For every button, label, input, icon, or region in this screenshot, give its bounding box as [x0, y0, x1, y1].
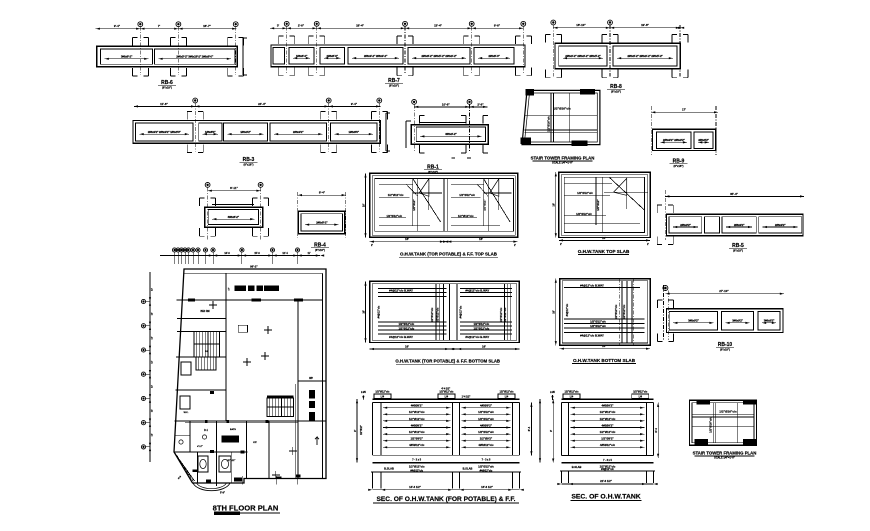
- section of O.H.W. tank (for potable) & F.F.: [353, 388, 541, 504]
- svg-text:96'-2": 96'-2": [250, 264, 258, 268]
- svg-text:(8"x18"): (8"x18"): [244, 163, 254, 167]
- svg-text:1/2"Ø12"c/c: 1/2"Ø12"c/c: [478, 417, 494, 421]
- svg-text:5'-9": 5'-9": [220, 493, 225, 495]
- svg-text:1/2"Ø12"c/c: 1/2"Ø12"c/c: [409, 430, 425, 434]
- beam RB-3 right end bracket: [385, 113, 387, 151]
- svg-text:1/2"Ø12"c/c: 1/2"Ø12"c/c: [600, 410, 616, 414]
- svg-text:1/2"Ø12"c/c: 1/2"Ø12"c/c: [473, 326, 489, 330]
- svg-text:UP: UP: [205, 351, 209, 353]
- svg-text:1/2"Ø12"c/c: 1/2"Ø12"c/c: [473, 322, 489, 326]
- svg-text:2#6x9′2": 2#6x9′2": [775, 223, 786, 227]
- svg-text:#4@12"c/c B.WAY: #4@12"c/c B.WAY: [580, 334, 604, 338]
- svg-text:1/2"Ø12"c/c: 1/2"Ø12"c/c: [564, 391, 579, 394]
- svg-text:9'-6": 9'-6": [494, 24, 501, 28]
- svg-text:1/2"Ø16"c/c: 1/2"Ø16"c/c: [709, 417, 713, 433]
- column (black) bottom-left: [695, 439, 709, 445]
- svg-text:2#6x8′-0": 2#6x8′-0": [327, 54, 339, 58]
- svg-text:#4@12"c/c: #4@12"c/c: [601, 468, 614, 471]
- beam elevation RB-7: [270, 21, 531, 87]
- svg-text:16': 16': [602, 236, 606, 240]
- svg-text:1/2"Ø12": 1/2"Ø12": [596, 199, 600, 211]
- svg-text:1/2"Ø12"c/c: 1/2"Ø12"c/c: [600, 430, 616, 434]
- O.H.W. tank top slab plan: [552, 172, 651, 254]
- top dimension line: [160, 255, 320, 257]
- svg-text:8'-4": 8'-4": [319, 191, 326, 195]
- svg-text:16': 16': [552, 310, 556, 314]
- svg-text:B.SLAB: B.SLAB: [384, 466, 394, 470]
- svg-text:8'-4: 8'-4: [527, 426, 531, 431]
- interior beam lines: [712, 403, 714, 443]
- svg-text:1/2"Ø12"c/c: 1/2"Ø12"c/c: [478, 464, 494, 468]
- svg-text:4#5Ø9′2": 4#5Ø9′2": [411, 423, 424, 427]
- legs: [561, 471, 563, 483]
- svg-text:3#6x9′2": 3#6x9′2": [732, 319, 743, 323]
- beam elevation RB-8: [545, 20, 688, 94]
- svg-text:1/2"Ø12": 1/2"Ø12": [361, 425, 363, 435]
- svg-text:2#6x8′-2" 2#6x5′-2" 2#6x9′-2": 2#6x8′-2" 2#6x5′-2" 2#6x9′-2": [421, 54, 457, 58]
- right wall inner line: [322, 273, 324, 478]
- svg-text:24'-4": 24'-4": [258, 102, 266, 106]
- svg-text:1/2"Ø16"c/c: 1/2"Ø16"c/c: [719, 410, 737, 414]
- bottom slab cell rebar: [460, 288, 512, 290]
- partition wall: [443, 178, 445, 231]
- top stub bars and notes: [374, 394, 391, 399]
- svg-text:(8"x18"): (8"x18"): [733, 249, 743, 253]
- bottom slab cell rebar: [378, 288, 446, 290]
- svg-text:#4@12"c/c: #4@12"c/c: [410, 469, 423, 472]
- svg-text:4#5Ø9′2": 4#5Ø9′2": [480, 404, 493, 408]
- left dimension line: [356, 399, 358, 462]
- svg-text:19'-8": 19'-8": [641, 23, 649, 27]
- svg-text:B.SLAB: B.SLAB: [572, 465, 582, 469]
- svg-text:9'-4": 9'-4": [114, 24, 121, 28]
- svg-text:(8"x18"): (8"x18"): [720, 348, 730, 352]
- svg-text:2#6x9′-2" 2#6x9′-2" 2#6x5′-2": 2#6x9′-2" 2#6x9′-2" 2#6x5′-2": [565, 54, 601, 58]
- svg-text:2#6x6′2": 2#6x6′2": [698, 138, 709, 142]
- svg-text:1/2"Ø12"c/c: 1/2"Ø12"c/c: [409, 410, 425, 414]
- building outline: [174, 269, 326, 483]
- bottom dimension line: [562, 483, 654, 485]
- svg-text:1/2"Ø12": 1/2"Ø12": [412, 199, 416, 211]
- svg-text:4#5Ø9′2": 4#5Ø9′2": [480, 423, 493, 427]
- svg-text:#4@12"c/c: #4@12"c/c: [566, 303, 569, 316]
- tank interior rebar lines: [571, 407, 645, 409]
- svg-text:8'-11": 8'-11": [230, 186, 238, 190]
- fixtures: [198, 456, 208, 472]
- svg-text:2#6x9′2" 2#6x9′2": 2#6x9′2" 2#6x9′2": [663, 138, 686, 142]
- beam elevation RB-3: [133, 98, 387, 167]
- right dimension line: [530, 403, 532, 456]
- svg-text:12': 12': [152, 409, 154, 412]
- left dimension line: [552, 399, 554, 463]
- svg-text:16': 16': [361, 310, 365, 314]
- svg-text:O.H.W.TANK (TOR POTABLE) & F.F: O.H.W.TANK (TOR POTABLE) & F.F. TOP SLAB: [400, 252, 497, 257]
- svg-text:2'-6": 2'-6": [298, 24, 305, 28]
- svg-text:17': 17': [229, 287, 231, 290]
- svg-text:1/2"Ø12"c/c: 1/2"Ø12"c/c: [409, 464, 425, 468]
- svg-text:1/2"Ø12"c/c: 1/2"Ø12"c/c: [388, 193, 404, 197]
- svg-text:#4@12"c/c B.WAY: #4@12"c/c B.WAY: [389, 335, 413, 339]
- svg-text:1#6x9′2": 1#6x9′2": [240, 130, 251, 134]
- svg-text:4#5Ø12"c/c: 4#5Ø12"c/c: [600, 443, 616, 447]
- left dimension bubbles column: [149, 272, 151, 462]
- stair 1 hatch: [194, 332, 220, 358]
- svg-text:1/2"Ø16"c/c: 1/2"Ø16"c/c: [553, 107, 571, 111]
- svg-text:1/2"Ø12"c/c: 1/2"Ø12"c/c: [499, 307, 503, 322]
- door cross marks: [264, 329, 272, 331]
- svg-text:27'-10": 27'-10": [719, 289, 729, 293]
- svg-text:1/2"Ø12"c/c: 1/2"Ø12"c/c: [409, 417, 425, 421]
- svg-text:SEC. OF O.H.W.TANK (FOR POTABL: SEC. OF O.H.W.TANK (FOR POTABLE) & F.F.: [377, 496, 516, 503]
- svg-text:2#6x9′2" 2#6x9′2" 1#6x6′0": 2#6x9′2" 2#6x9′2" 1#6x6′0": [148, 130, 182, 134]
- bottom slab: [562, 454, 654, 456]
- column grid bubbles row: [172, 248, 176, 252]
- svg-text:SEC. OF O.H.W.TANK: SEC. OF O.H.W.TANK: [571, 494, 640, 501]
- svg-text:16': 16': [479, 237, 483, 241]
- beam elevation (RB-2): [200, 183, 269, 241]
- svg-text:1/2"Ø12"c/c: 1/2"Ø12"c/c: [398, 326, 414, 330]
- svg-text:(8"x18"): (8"x18"): [674, 164, 684, 168]
- svg-text:1/2"Ø12"c/c: 1/2"Ø12"c/c: [577, 191, 593, 195]
- walls: [561, 403, 563, 456]
- 8th floor plan: [141, 248, 326, 515]
- svg-text:17': 17': [682, 108, 686, 112]
- svg-text:1/2"Ø12"c/c: 1/2"Ø12"c/c: [614, 304, 618, 319]
- svg-text:BED RM: BED RM: [200, 311, 209, 313]
- svg-text:12': 12': [152, 336, 154, 339]
- svg-text:4#5Ø12"c/c: 4#5Ø12"c/c: [478, 443, 494, 447]
- stair tower framing plan (bottom): [690, 399, 757, 459]
- svg-text:18'-10": 18'-10": [576, 23, 586, 27]
- svg-text:1/2"Ø12"c/c: 1/2"Ø12"c/c: [375, 391, 390, 394]
- svg-text:(8"x18"): (8"x18"): [389, 84, 399, 88]
- svg-text:15'-6: 15'-6: [254, 252, 260, 255]
- beam elevation RB-9: [651, 106, 718, 168]
- svg-text:2#6x6′-2" 2#6x9′-2" 2#6x5′-2: 2#6x6′-2" 2#6x9′-2" 2#6x5′-2": [627, 54, 663, 58]
- O.H.W. tank (for potable) top slab plan: [361, 173, 517, 257]
- svg-text:1/2"Ø9′2": 1/2"Ø9′2": [410, 437, 423, 441]
- svg-text:16': 16': [482, 344, 486, 348]
- svg-text:16': 16': [405, 344, 409, 348]
- svg-text:1/2"x12": 1/2"x12": [227, 460, 236, 462]
- svg-text:14'-3 1/2": 14'-3 1/2": [409, 485, 422, 489]
- svg-text:4#5Ø9′2": 4#5Ø9′2": [602, 423, 615, 427]
- svg-text:1'-4 1/2": 1'-4 1/2": [462, 396, 471, 399]
- partition wall: [448, 284, 450, 341]
- column (black) top-right: [580, 89, 595, 95]
- bottom dimension line: [370, 348, 520, 350]
- svg-text:2#6x9′-2" 2#6x9′-2": 2#6x9′-2" 2#6x9′-2": [364, 54, 388, 58]
- svg-text:SCALE 1/4"=1'-0": SCALE 1/4"=1'-0": [552, 162, 573, 165]
- svg-text:1/2"Ø12"c/c: 1/2"Ø12"c/c: [430, 307, 434, 322]
- top wall inner line: [184, 272, 323, 274]
- svg-text:W.C.: W.C.: [184, 412, 189, 414]
- svg-text:STAIR TOWER FRAMING PLAN: STAIR TOWER FRAMING PLAN: [531, 155, 595, 160]
- column (black) top-right: [743, 399, 757, 404]
- left dimension line: [365, 281, 367, 342]
- left dimension line: [555, 279, 557, 346]
- svg-text:18'-4": 18'-4": [356, 24, 364, 28]
- svg-text:(8"x18"): (8"x18"): [315, 248, 325, 252]
- svg-text:16': 16': [361, 203, 365, 207]
- svg-text:12': 12': [152, 433, 154, 436]
- svg-text:2#6x9′2": 2#6x9′2": [293, 130, 304, 134]
- svg-text:16': 16': [602, 344, 606, 348]
- svg-text:STAIR TOWER FRAMING PLAN: STAIR TOWER FRAMING PLAN: [693, 451, 757, 456]
- top slab: [372, 398, 519, 400]
- svg-text:3#6x8′-2": 3#6x8′-2": [121, 55, 133, 59]
- column (black) bottom-right: [572, 140, 588, 146]
- north arrow: [315, 437, 319, 445]
- svg-text:1/2"Ø12"c/c: 1/2"Ø12"c/c: [633, 391, 648, 394]
- svg-text:35'-4": 35'-4": [730, 192, 738, 196]
- svg-text:2'-6": 2'-6": [477, 102, 484, 106]
- svg-text:1#6x8′0": 1#6x8′0": [205, 130, 216, 134]
- svg-text:1/2"Ø9′2": 1/2"Ø9′2": [601, 437, 614, 441]
- svg-text:8'-4: 8'-4: [654, 428, 658, 433]
- svg-text:#4@12"c/c B.WAY: #4@12"c/c B.WAY: [580, 284, 604, 288]
- svg-text:1/2"Ø12"c/c: 1/2"Ø12"c/c: [503, 307, 507, 322]
- svg-text:(8"x18"): (8"x18"): [162, 86, 172, 90]
- svg-text:SCALE 1/4"=1'-0": SCALE 1/4"=1'-0": [714, 457, 735, 460]
- svg-text:12': 12': [152, 288, 154, 291]
- svg-text:12': 12': [152, 360, 154, 363]
- section marker dashes: [452, 157, 455, 159]
- bay window arc: [193, 483, 230, 491]
- svg-text:O.H.W.TANK BOTTOM SLAB: O.H.W.TANK BOTTOM SLAB: [573, 358, 636, 363]
- svg-text:16': 16': [552, 203, 556, 207]
- tank interior rebar lines: [383, 407, 450, 409]
- bottom dimension line: [370, 241, 518, 243]
- interior walls: [177, 299, 323, 301]
- legs: [371, 472, 373, 489]
- svg-text:1/2"Ø12"c/c: 1/2"Ø12"c/c: [398, 322, 414, 326]
- svg-text:4′-4 1/2": 4′-4 1/2": [441, 388, 450, 391]
- svg-text:1/2"Ø12"c/c: 1/2"Ø12"c/c: [458, 214, 474, 218]
- svg-text:4#5Ø12"c/c: 4#5Ø12"c/c: [409, 443, 425, 447]
- svg-text:16': 16': [405, 237, 409, 241]
- column (black) top-left: [525, 89, 534, 96]
- svg-text:7 - 3 x 5: 7 - 3 x 5: [603, 459, 612, 462]
- beam elevation RB-6: [96, 22, 244, 90]
- column (black) bottom-right: [743, 439, 757, 445]
- svg-text:7 - 3 x 5: 7 - 3 x 5: [412, 459, 421, 462]
- svg-text:3#6x9′-2": 3#6x9′-2": [445, 132, 457, 136]
- svg-text:1#6x8′0": 1#6x8′0": [348, 130, 359, 134]
- kitchen counter (black): [222, 436, 240, 443]
- svg-text:11'-6": 11'-6": [160, 102, 168, 106]
- svg-text:#4@12"c/c: #4@12"c/c: [378, 305, 381, 318]
- svg-text:1#6x6′-0": 1#6x6′-0": [296, 54, 308, 58]
- black bars (walls) top: [234, 286, 246, 291]
- svg-text:8TH FLOOR PLAN: 8TH FLOOR PLAN: [213, 504, 279, 513]
- svg-text:1/2"Ø12"c/c: 1/2"Ø12"c/c: [459, 193, 475, 197]
- bottom slab: [372, 454, 519, 456]
- svg-text:#4@12"c/c B.WAY: #4@12"c/c B.WAY: [465, 289, 489, 293]
- black bars right strip: [309, 390, 315, 399]
- diagonal wall hatch bottom-left: [176, 455, 195, 481]
- svg-text:12': 12': [152, 312, 154, 315]
- svg-text:9'-4": 9'-4": [351, 102, 358, 106]
- svg-text:3#6x8′-2": 3#6x8′-2": [228, 215, 240, 219]
- beam elevation RB-10: [657, 285, 784, 352]
- svg-text:2#6x8′-2": 2#6x8′-2": [316, 220, 328, 224]
- beam RB-6 right end bracket: [242, 38, 244, 75]
- svg-text:#4@12"c/c B.WAY: #4@12"c/c B.WAY: [465, 335, 489, 339]
- slab cell rebar: [451, 184, 483, 186]
- svg-text:2#6x8′-0": 2#6x8′-0": [488, 54, 500, 58]
- svg-text:4#5Ø9′2": 4#5Ø9′2": [411, 404, 424, 408]
- svg-text:2#6x9′2": 2#6x9′2": [680, 223, 691, 227]
- column (black) top-left: [696, 399, 710, 404]
- right dimension line: [657, 403, 659, 458]
- svg-text:O.H.W.TANK (TOR POTABLE) & F.F: O.H.W.TANK (TOR POTABLE) & F.F. BOTTOM S…: [395, 359, 500, 364]
- door jamb blobs: [188, 299, 195, 302]
- left dimension line: [365, 173, 367, 237]
- svg-text:4"x7": 4"x7": [197, 445, 203, 448]
- top stub bars and notes: [563, 394, 580, 399]
- svg-text:1/2"Ø12"c/c: 1/2"Ø12"c/c: [600, 417, 616, 421]
- stair tower framing plan (top): [521, 89, 600, 165]
- svg-text:B.SLAB: B.SLAB: [463, 466, 473, 470]
- stair 2 hatch: [267, 396, 294, 398]
- walls: [371, 403, 373, 456]
- svg-text:14'-6: 14'-6: [224, 252, 230, 255]
- bottom dimension line: [559, 239, 650, 241]
- svg-text:O.H.W.TANK TOP SLAB: O.H.W.TANK TOP SLAB: [578, 249, 630, 254]
- svg-text:3#6x9′2": 3#6x9′2": [688, 319, 699, 323]
- slab cell rebar: [379, 184, 413, 186]
- svg-text:1/2"Ø12"c/c: 1/2"Ø12"c/c: [622, 304, 626, 319]
- bottom dimension line: [372, 489, 519, 491]
- bottom dimension line: [560, 348, 651, 350]
- interior beam lines: [550, 93, 552, 142]
- svg-text:#4@12"c/c: #4@12"c/c: [460, 305, 463, 318]
- svg-text:1/2"Ø16"c/c: 1/2"Ø16"c/c: [547, 116, 551, 132]
- center dash-dot lines: [619, 279, 621, 346]
- svg-text:2#6x9′2": 2#6x9′2": [734, 223, 745, 227]
- svg-text:18'-7": 18'-7": [203, 24, 211, 28]
- svg-text:1/2"Ø9′2": 1/2"Ø9′2": [480, 437, 493, 441]
- svg-text:WP: WP: [309, 377, 313, 380]
- beam elevation RB-4: [298, 191, 346, 253]
- svg-text:BATH: BATH: [230, 428, 236, 431]
- svg-text:#4@12"c/c B.WAY: #4@12"c/c B.WAY: [389, 289, 413, 293]
- svg-text:1/2"Ø12"c/c: 1/2"Ø12"c/c: [386, 214, 402, 218]
- svg-text:1/2"Ø12"c/c: 1/2"Ø12"c/c: [439, 391, 454, 394]
- svg-text:3': 3': [277, 24, 280, 28]
- svg-text:1/2"Ø12"c/c: 1/2"Ø12"c/c: [590, 320, 606, 324]
- svg-text:12'-4: 12'-4: [282, 252, 288, 255]
- svg-text:13'-6 1/2": 13'-6 1/2": [481, 485, 494, 489]
- svg-text:1/2"Ø12"c/c: 1/2"Ø12"c/c: [478, 430, 494, 434]
- svg-text:1/2"Ø12"c/c: 1/2"Ø12"c/c: [590, 324, 606, 328]
- svg-text:1/2"Ø12"c/c: 1/2"Ø12"c/c: [435, 307, 439, 322]
- top slab: [562, 398, 654, 400]
- svg-text:#4@12"c/c: #4@12"c/c: [480, 469, 493, 472]
- svg-text:(8"x18"): (8"x18"): [611, 90, 621, 94]
- svg-text:1/2"Ø12"c/c: 1/2"Ø12"c/c: [499, 391, 514, 394]
- svg-text:2-#5: 2-#5: [361, 391, 366, 394]
- svg-text:1/2"Ø12"c/c: 1/2"Ø12"c/c: [478, 410, 494, 414]
- svg-text:7 - 3 x 5: 7 - 3 x 5: [482, 459, 491, 462]
- svg-text:10'-6": 10'-6": [442, 102, 450, 106]
- O.H.W. tank bottom slab plan: [552, 279, 651, 364]
- svg-text:12': 12': [152, 385, 154, 388]
- O.H.W. tank (for potable) bottom slab plan: [361, 281, 519, 364]
- grid ticks bottom edge: [242, 476, 244, 485]
- svg-text:11': 11': [307, 252, 311, 255]
- left dimension line: [555, 172, 557, 237]
- svg-text:2#6x5′-2" 3#6x18′-2" 2#6x8′-0": 2#6x5′-2" 3#6x18′-2" 2#6x8′-0": [176, 55, 214, 59]
- svg-text:2-#5: 2-#5: [550, 391, 555, 394]
- small opening rect: [238, 325, 247, 332]
- section of O.H.W. tank: [549, 391, 659, 501]
- tank interior rebar lines: [462, 407, 511, 409]
- svg-text:3#6x9′2": 3#6x9′2": [764, 319, 775, 323]
- svg-text:1/2"Ø12"c/c: 1/2"Ø12"c/c: [576, 212, 592, 216]
- svg-text:1/2"Ø12": 1/2"Ø12": [483, 199, 487, 211]
- beam elevation RB-5: [657, 190, 804, 253]
- column (black) bottom-left: [521, 138, 531, 145]
- svg-text:22'-6 1/2": 22'-6 1/2": [600, 479, 613, 483]
- beam elevation RB-1: [406, 100, 488, 175]
- svg-text:4#5Ø9′2": 4#5Ø9′2": [602, 404, 615, 408]
- svg-text:7': 7': [158, 24, 161, 28]
- svg-text:13'-4": 13'-4": [434, 24, 442, 28]
